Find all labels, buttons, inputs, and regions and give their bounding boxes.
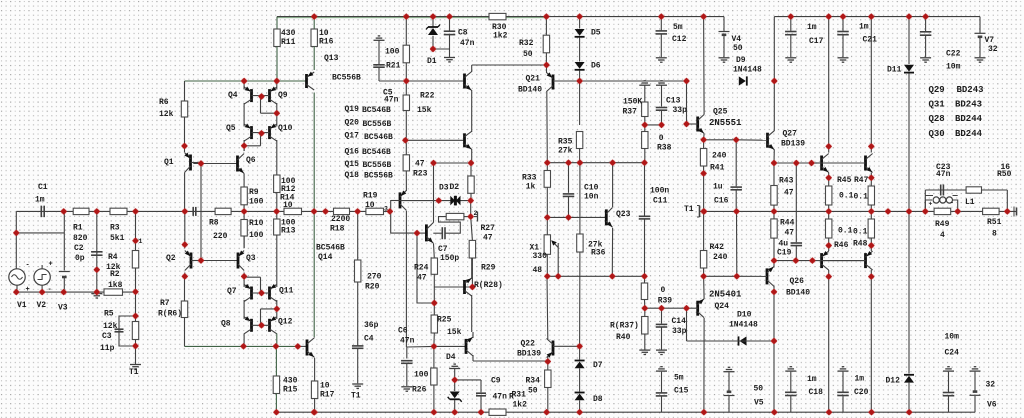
svg-text:Q28: Q28 <box>929 114 945 124</box>
svg-text:BD140: BD140 <box>518 86 542 95</box>
svg-text:47n: 47n <box>493 393 508 402</box>
svg-text:3: 3 <box>384 206 388 213</box>
svg-text:Q8: Q8 <box>221 320 231 329</box>
svg-text:R5: R5 <box>104 310 114 319</box>
svg-text:R6: R6 <box>159 98 169 107</box>
svg-text:1m: 1m <box>859 23 869 32</box>
svg-text:150p: 150p <box>440 254 459 263</box>
svg-text:D6: D6 <box>591 62 601 71</box>
svg-text:50: 50 <box>523 50 533 59</box>
svg-text:C17: C17 <box>809 37 824 46</box>
svg-text:C15: C15 <box>674 387 689 396</box>
svg-text:D9: D9 <box>736 56 746 65</box>
svg-text:R45: R45 <box>837 176 852 185</box>
svg-text:R49: R49 <box>935 220 950 229</box>
svg-text:1u: 1u <box>713 183 723 192</box>
svg-text:0.1: 0.1 <box>853 228 868 237</box>
svg-text:R17: R17 <box>320 391 335 400</box>
svg-text:R48: R48 <box>853 240 868 249</box>
svg-text:27k: 27k <box>558 147 573 156</box>
svg-text:T1: T1 <box>129 368 139 377</box>
svg-text:R(R28): R(R28) <box>474 281 503 290</box>
svg-text:430: 430 <box>281 29 296 38</box>
svg-text:R37: R37 <box>623 108 638 117</box>
svg-text:0: 0 <box>659 134 664 143</box>
svg-text:+: + <box>49 261 53 269</box>
svg-text:R15: R15 <box>283 386 298 395</box>
svg-text:R29: R29 <box>481 264 496 273</box>
svg-text:BD139: BD139 <box>517 350 541 359</box>
svg-text:0.1: 0.1 <box>839 192 854 201</box>
svg-text:15k: 15k <box>447 328 462 337</box>
svg-text:Q21: Q21 <box>526 75 541 84</box>
svg-text:R40: R40 <box>616 333 631 342</box>
svg-text:100: 100 <box>385 48 400 57</box>
svg-text:BD243: BD243 <box>957 85 984 95</box>
svg-text:T1: T1 <box>684 205 694 214</box>
svg-text:Q3: Q3 <box>246 254 256 263</box>
svg-text:V1: V1 <box>17 301 27 310</box>
svg-text:V5: V5 <box>754 399 764 408</box>
svg-text:R20: R20 <box>365 283 380 292</box>
svg-text:Q16: Q16 <box>345 148 360 157</box>
svg-text:C13: C13 <box>666 97 681 106</box>
svg-text:D12: D12 <box>886 377 901 386</box>
svg-text:1k2: 1k2 <box>493 32 508 41</box>
svg-text:Q6: Q6 <box>246 156 256 165</box>
svg-text:33p: 33p <box>672 327 687 336</box>
svg-text:1: 1 <box>139 238 143 245</box>
svg-text:R25: R25 <box>437 316 452 325</box>
svg-text:BC556B: BC556B <box>332 74 361 83</box>
svg-text:15k: 15k <box>417 106 432 115</box>
svg-text:270: 270 <box>367 273 382 282</box>
svg-text:BC546B: BC546B <box>364 133 393 142</box>
svg-text:100: 100 <box>249 198 264 207</box>
svg-text:10n: 10n <box>584 193 599 202</box>
svg-text:Q5: Q5 <box>226 124 236 133</box>
svg-text:R24: R24 <box>414 264 429 273</box>
svg-text:R31: R31 <box>512 391 527 400</box>
svg-text:D2: D2 <box>450 183 460 192</box>
svg-text:0.1: 0.1 <box>854 193 869 202</box>
svg-text:47: 47 <box>785 229 795 238</box>
svg-text:47n: 47n <box>384 96 399 105</box>
svg-text:10m: 10m <box>945 333 960 342</box>
svg-text:10: 10 <box>365 201 375 210</box>
svg-text:R16: R16 <box>319 38 334 47</box>
svg-text:Q1: Q1 <box>164 158 174 167</box>
svg-text:D3: D3 <box>439 184 449 193</box>
svg-text:50: 50 <box>754 385 764 394</box>
svg-text:R44: R44 <box>780 219 795 228</box>
svg-text:R51: R51 <box>987 218 1002 227</box>
svg-text:Q14: Q14 <box>318 253 333 262</box>
svg-text:32: 32 <box>986 381 996 390</box>
svg-text:Q25: Q25 <box>713 108 728 117</box>
svg-text:C7: C7 <box>438 245 448 254</box>
svg-text:47: 47 <box>415 160 425 169</box>
svg-text:C6: C6 <box>398 327 408 336</box>
svg-text:Q11: Q11 <box>279 287 294 296</box>
svg-text:T1: T1 <box>351 392 361 401</box>
svg-text:47n: 47n <box>400 337 415 346</box>
svg-text:R27: R27 <box>481 224 496 233</box>
svg-text:Q27: Q27 <box>783 130 798 139</box>
svg-text:R8: R8 <box>209 219 219 228</box>
svg-text:12k: 12k <box>159 110 174 119</box>
svg-text:D1: D1 <box>427 57 437 66</box>
svg-text:2N5551: 2N5551 <box>709 118 742 128</box>
svg-text:R43: R43 <box>779 177 794 186</box>
svg-text:C8: C8 <box>458 29 468 38</box>
svg-text:R9: R9 <box>249 188 259 197</box>
svg-text:C14: C14 <box>672 317 687 326</box>
svg-text:R19: R19 <box>363 192 378 201</box>
svg-text:Q2: Q2 <box>166 254 176 263</box>
svg-text:D4: D4 <box>446 353 456 362</box>
svg-text:Q30: Q30 <box>929 129 945 139</box>
svg-text:Q20: Q20 <box>345 119 360 128</box>
svg-text:Q15: Q15 <box>345 160 360 169</box>
svg-text:C18: C18 <box>809 388 824 397</box>
svg-text:R4: R4 <box>108 253 118 262</box>
svg-text:D5: D5 <box>591 29 601 38</box>
svg-text:2N5401: 2N5401 <box>709 290 742 300</box>
svg-text:Q22: Q22 <box>521 340 536 349</box>
svg-text:C22: C22 <box>946 50 961 59</box>
svg-text:C10: C10 <box>584 184 599 193</box>
svg-text:C2: C2 <box>74 244 84 253</box>
svg-text:BD243: BD243 <box>955 100 982 110</box>
svg-text:430: 430 <box>283 377 298 386</box>
svg-text:4: 4 <box>940 231 945 240</box>
svg-text:Q29: Q29 <box>929 85 945 95</box>
svg-text:10: 10 <box>283 201 293 210</box>
svg-text:R34: R34 <box>526 377 541 386</box>
svg-text:D11: D11 <box>887 66 902 75</box>
svg-text:V7: V7 <box>985 36 995 45</box>
svg-text:-: - <box>950 200 954 207</box>
svg-text:R13: R13 <box>281 227 296 236</box>
svg-text:R36: R36 <box>591 249 606 258</box>
svg-text:R2: R2 <box>110 270 120 279</box>
svg-text:C16: C16 <box>714 197 729 206</box>
svg-text:D8: D8 <box>593 395 603 404</box>
svg-text:R1: R1 <box>73 224 83 233</box>
svg-text:Q13: Q13 <box>324 54 339 63</box>
svg-text:47: 47 <box>784 189 794 198</box>
svg-text:1m: 1m <box>35 196 45 205</box>
svg-text:C20: C20 <box>854 388 869 397</box>
svg-text:+: + <box>26 286 30 294</box>
svg-text:R7: R7 <box>160 299 170 308</box>
svg-text:R41: R41 <box>710 164 725 173</box>
svg-text:L1: L1 <box>965 198 975 207</box>
svg-text:V6: V6 <box>987 401 997 410</box>
svg-text:33p: 33p <box>673 106 688 115</box>
svg-text:1m: 1m <box>807 375 817 384</box>
svg-text:V4: V4 <box>732 35 742 44</box>
svg-text:50: 50 <box>528 387 538 396</box>
svg-text:C21: C21 <box>863 36 878 45</box>
svg-text:C12: C12 <box>672 35 687 44</box>
svg-text:100: 100 <box>249 231 264 240</box>
svg-text:Q4: Q4 <box>228 91 238 100</box>
svg-text:C24: C24 <box>945 349 960 358</box>
svg-text:R26: R26 <box>412 386 427 395</box>
svg-text:47: 47 <box>417 274 427 283</box>
svg-text:Q9: Q9 <box>278 91 288 100</box>
svg-text:R23: R23 <box>413 170 428 179</box>
svg-text:1m: 1m <box>807 23 817 32</box>
svg-text:-: - <box>26 262 30 270</box>
svg-text:R10: R10 <box>249 219 264 228</box>
svg-text:330: 330 <box>533 252 548 261</box>
svg-text:V2: V2 <box>37 301 47 310</box>
svg-text:R11: R11 <box>281 38 296 47</box>
svg-text:BC546B: BC546B <box>362 148 391 157</box>
svg-text:240: 240 <box>712 152 727 161</box>
svg-text:BD140: BD140 <box>786 289 810 298</box>
svg-text:1m: 1m <box>855 375 865 384</box>
svg-text:R39: R39 <box>658 297 673 306</box>
svg-text:10m: 10m <box>946 63 961 72</box>
svg-text:Q23: Q23 <box>616 210 631 219</box>
svg-text:R(R6): R(R6) <box>158 310 182 319</box>
svg-text:5m: 5m <box>674 374 684 383</box>
svg-text:2: 2 <box>474 210 478 217</box>
svg-text:BD244: BD244 <box>955 129 983 139</box>
svg-text:47: 47 <box>483 234 493 243</box>
svg-text:47n: 47n <box>460 39 475 48</box>
svg-text:BC556B: BC556B <box>364 172 393 181</box>
svg-text:1k2: 1k2 <box>513 401 528 410</box>
svg-text:V3: V3 <box>58 304 68 313</box>
svg-text:R46: R46 <box>834 241 849 250</box>
svg-text:1N4148: 1N4148 <box>733 66 762 75</box>
svg-text:10: 10 <box>320 382 330 391</box>
svg-text:220: 220 <box>213 232 228 241</box>
svg-text:R33: R33 <box>522 174 537 183</box>
svg-text:820: 820 <box>73 234 88 243</box>
svg-text:1k8: 1k8 <box>108 281 123 290</box>
svg-text:47n: 47n <box>936 170 951 179</box>
svg-text:BC546B: BC546B <box>362 106 391 115</box>
svg-text:C4: C4 <box>364 335 374 344</box>
svg-text:D7: D7 <box>593 361 603 370</box>
svg-text:100n: 100n <box>650 187 669 196</box>
svg-text:32: 32 <box>988 45 998 54</box>
svg-text:R42: R42 <box>710 243 725 252</box>
svg-text:Q31: Q31 <box>929 100 946 110</box>
svg-text:R47: R47 <box>854 176 869 185</box>
svg-text:BD139: BD139 <box>781 140 805 149</box>
svg-text:Q24: Q24 <box>715 302 730 311</box>
svg-text:R21: R21 <box>386 62 401 71</box>
svg-text:1N4148: 1N4148 <box>729 321 758 330</box>
svg-text:Q26: Q26 <box>790 277 805 286</box>
svg-text:12k: 12k <box>103 322 118 331</box>
svg-text:50: 50 <box>733 44 743 53</box>
svg-text:Q10: Q10 <box>278 124 293 133</box>
svg-text:Q7: Q7 <box>227 287 237 296</box>
svg-text:Q18: Q18 <box>345 171 360 180</box>
svg-text:BC556B: BC556B <box>363 161 392 170</box>
svg-text:5k1: 5k1 <box>110 234 125 243</box>
svg-text:11p: 11p <box>100 344 115 353</box>
svg-text:+: + <box>929 201 933 208</box>
svg-text:0.1: 0.1 <box>838 227 853 236</box>
svg-text:8: 8 <box>992 230 997 239</box>
svg-text:R32: R32 <box>519 39 534 48</box>
svg-text:Q19: Q19 <box>345 105 360 114</box>
svg-text:150K: 150K <box>623 98 642 107</box>
svg-text:D10: D10 <box>737 311 752 320</box>
svg-text:BC556B: BC556B <box>363 120 392 129</box>
svg-text:R35: R35 <box>558 138 573 147</box>
svg-text:Q17: Q17 <box>345 132 360 141</box>
svg-text:R50: R50 <box>997 170 1012 179</box>
svg-text:36p: 36p <box>364 321 379 330</box>
svg-text:1k: 1k <box>526 183 536 192</box>
svg-text:48: 48 <box>533 266 543 275</box>
svg-text:0: 0 <box>661 286 666 295</box>
svg-text:4u: 4u <box>779 240 789 249</box>
svg-text:C3: C3 <box>102 332 112 341</box>
svg-text:BC546B: BC546B <box>316 244 345 253</box>
svg-text:Q12: Q12 <box>278 318 293 327</box>
svg-text:100: 100 <box>414 371 429 380</box>
svg-text:R18: R18 <box>330 225 345 234</box>
svg-text:C11: C11 <box>653 197 668 206</box>
svg-text:C1: C1 <box>38 183 48 192</box>
svg-text:-: - <box>48 286 52 294</box>
svg-text:C9: C9 <box>491 377 501 386</box>
svg-text:C19: C19 <box>777 249 792 258</box>
svg-text:240: 240 <box>713 253 728 262</box>
svg-text:BD244: BD244 <box>955 114 983 124</box>
svg-text:R38: R38 <box>657 144 672 153</box>
svg-text:5m: 5m <box>673 23 683 32</box>
svg-text:0p: 0p <box>75 254 85 263</box>
svg-text:R3: R3 <box>110 224 120 233</box>
svg-text:R(R37): R(R37) <box>610 322 639 331</box>
svg-text:R22: R22 <box>420 92 435 101</box>
svg-text:2200: 2200 <box>331 215 350 224</box>
